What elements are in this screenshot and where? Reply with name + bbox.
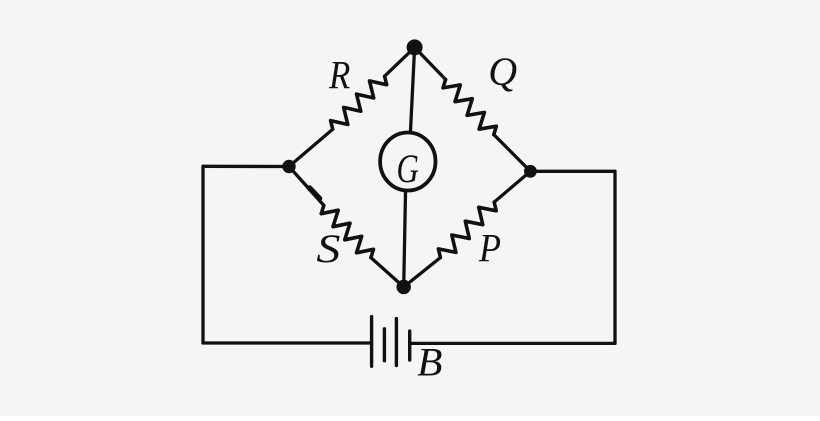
resistor Q lead upper — [415, 47, 446, 79]
resistor P lead upper — [494, 171, 530, 202]
resistor R lead upper — [385, 47, 415, 76]
battery plate 3 long — [395, 319, 398, 366]
resistor R lead lower — [289, 129, 333, 166]
wire top node to galvanometer — [411, 47, 415, 131]
svg-text:B: B — [417, 340, 442, 385]
node top junction dot — [407, 39, 423, 55]
wire bottom-left to battery — [203, 341, 370, 344]
node bottom junction dot — [397, 280, 411, 294]
resistor R zigzag — [331, 76, 387, 129]
resistor S zigzag — [321, 205, 373, 257]
svg-text:G: G — [397, 146, 419, 191]
resistor Q zigzag — [443, 80, 496, 135]
wire right rail vertical — [613, 171, 616, 343]
svg-text:S: S — [316, 226, 340, 271]
battery plate 1 long — [370, 317, 373, 367]
svg-text:P: P — [478, 226, 501, 271]
battery plate 4 short — [408, 331, 411, 360]
resistor S lead lower — [371, 258, 404, 287]
wire battery to bottom-right corner — [411, 342, 615, 345]
node right junction dot — [524, 165, 537, 178]
svg-text:Q: Q — [488, 49, 517, 94]
resistor S lead thick dash (hand-drawn overlap) — [310, 188, 320, 199]
resistor S lead upper — [289, 167, 324, 206]
wire galvanometer to bottom node — [404, 193, 406, 288]
battery plate 2 short — [383, 329, 386, 361]
wire left node to left rail — [203, 165, 289, 168]
wire right rail to right node — [530, 170, 615, 173]
galvanometer G circle — [380, 133, 435, 191]
svg-text:R: R — [328, 53, 350, 98]
resistor Q lead lower — [494, 135, 531, 172]
resistor P zigzag — [438, 202, 496, 258]
node left junction dot — [282, 160, 295, 173]
resistor P lead lower — [404, 258, 441, 287]
wire left rail vertical — [201, 166, 204, 343]
